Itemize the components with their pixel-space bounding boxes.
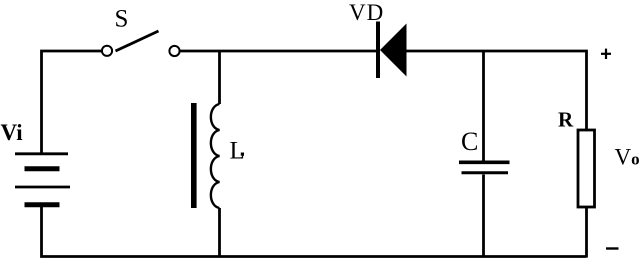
svg-text:L: L [230, 138, 245, 165]
svg-text:R: R [558, 108, 574, 132]
svg-text:C: C [461, 127, 478, 156]
svg-text:Vi: Vi [1, 120, 24, 145]
svg-text:S: S [115, 6, 129, 33]
svg-text:VD: VD [349, 0, 384, 25]
